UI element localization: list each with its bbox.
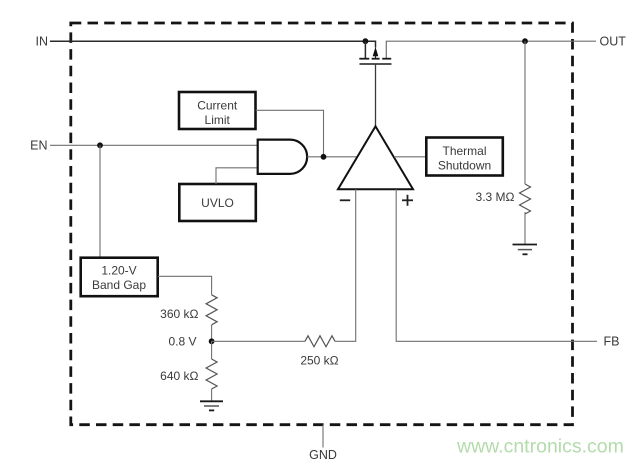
wire 0.8V node to 640k xyxy=(211,341,213,359)
svg-text:FB: FB xyxy=(604,335,620,349)
wire EN rail xyxy=(50,144,258,146)
label FB xyxy=(604,335,620,349)
svg-text:Limit: Limit xyxy=(205,113,231,127)
transistor Q1 (PMOS pass element) xyxy=(359,47,391,64)
node AND output junction xyxy=(321,154,327,160)
wire UVLO to AND input xyxy=(216,168,258,184)
node OUT junction xyxy=(522,38,528,44)
wire GND stem xyxy=(322,425,324,448)
block 1.20-V Band Gap xyxy=(81,258,158,297)
wire op-amp plus input to FB rail xyxy=(396,189,597,341)
block Current Limit xyxy=(179,92,256,129)
wire gate drive from op-amp xyxy=(375,64,377,126)
svg-text:360 kΩ: 360 kΩ xyxy=(160,307,198,321)
label OUT xyxy=(600,34,627,48)
gate U1 (AND) xyxy=(258,140,307,174)
wire 640k to ground xyxy=(211,389,213,401)
svg-text:OUT: OUT xyxy=(600,34,627,48)
label minus input xyxy=(340,199,350,201)
svg-text:640 kΩ: 640 kΩ xyxy=(160,369,198,383)
wire OUT rail xyxy=(386,41,596,58)
node IN/source junction xyxy=(363,38,369,44)
resistor R3 250k xyxy=(305,336,335,347)
label 0.8 V xyxy=(168,335,196,349)
svg-text:GND: GND xyxy=(309,448,337,462)
wire 3.3M to ground xyxy=(524,212,526,245)
label plus input xyxy=(402,195,413,206)
svg-text:Current: Current xyxy=(197,99,238,113)
wire op-amp to thermal shutdown xyxy=(394,156,426,158)
label 250 kOhm xyxy=(300,354,338,368)
ground below 3.3M xyxy=(513,245,538,255)
label 640 kOhm xyxy=(160,369,198,383)
resistor R2 360k xyxy=(206,295,217,325)
block UVLO xyxy=(179,184,256,221)
dashed IC boundary box xyxy=(71,23,573,425)
wire AND output to op-amp xyxy=(307,156,357,158)
label 360 kOhm xyxy=(160,307,198,321)
svg-text:UVLO: UVLO xyxy=(201,196,234,210)
resistor R4 640k xyxy=(206,359,217,389)
node 0.8 V xyxy=(209,338,215,344)
label IN xyxy=(36,34,49,48)
svg-text:Thermal: Thermal xyxy=(442,144,486,158)
watermark www.cntronics.com xyxy=(456,436,624,458)
svg-text:www.cntronics.com: www.cntronics.com xyxy=(456,436,624,458)
node EN junction xyxy=(97,142,103,148)
wire source drop xyxy=(364,41,366,58)
block Thermal Shutdown xyxy=(426,138,503,176)
wire band gap to 360k xyxy=(158,276,212,295)
resistor R1 3.3 MOhm xyxy=(520,184,531,214)
label GND xyxy=(309,448,337,462)
label 3.3 MOhm xyxy=(476,190,515,204)
ground below 640k xyxy=(200,401,223,410)
svg-text:Shutdown: Shutdown xyxy=(438,159,491,173)
svg-text:0.8 V: 0.8 V xyxy=(168,335,196,349)
svg-text:3.3 MΩ: 3.3 MΩ xyxy=(476,190,515,204)
wire EN to band gap xyxy=(99,145,101,257)
svg-text:1.20-V: 1.20-V xyxy=(101,264,136,278)
svg-text:250 kΩ: 250 kΩ xyxy=(300,354,338,368)
wire 360k to node 0.8V xyxy=(211,325,213,342)
svg-text:IN: IN xyxy=(36,34,49,48)
wire 0.8V node to 250k xyxy=(212,340,305,342)
wire 250k to op-amp minus input xyxy=(335,189,356,341)
svg-text:EN: EN xyxy=(30,139,47,153)
wire IN rail xyxy=(50,41,376,47)
svg-text:Band Gap: Band Gap xyxy=(92,278,146,292)
wire OUT to 3.3M resistor xyxy=(524,41,526,184)
label EN xyxy=(30,139,47,153)
op-amp U2 (error amplifier) xyxy=(338,126,413,189)
wire current limit to AND output node xyxy=(256,110,324,157)
